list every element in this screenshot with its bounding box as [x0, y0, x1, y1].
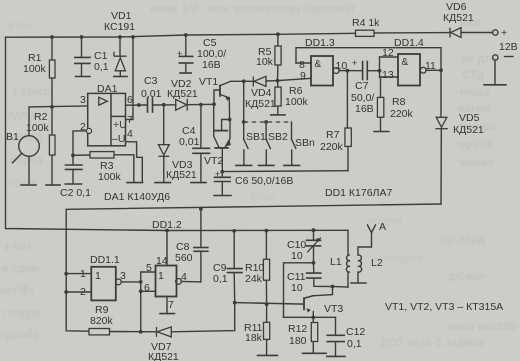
- svg-text:18k: 18k: [245, 332, 263, 344]
- svg-text:100k: 100k: [23, 63, 47, 75]
- svg-text:0,01: 0,01: [141, 88, 162, 100]
- svg-text:10: 10: [291, 250, 303, 262]
- svg-text:10k: 10k: [256, 56, 274, 68]
- svg-text:КД521: КД521: [245, 98, 276, 110]
- svg-text:C6 50,0/16В: C6 50,0/16В: [235, 175, 293, 187]
- svg-text:R12: R12: [288, 323, 307, 335]
- svg-text:100k: 100k: [26, 122, 50, 134]
- svg-text:12: 12: [382, 47, 394, 59]
- svg-text:16В: 16В: [202, 59, 221, 71]
- svg-text:DD1.4: DD1.4: [394, 37, 424, 49]
- svg-text:6: 6: [144, 282, 150, 294]
- svg-text:220k: 220k: [390, 108, 414, 120]
- svg-text:SBn: SBn: [295, 137, 315, 149]
- svg-text:&: &: [402, 57, 409, 68]
- svg-text:–U: –U: [112, 133, 125, 145]
- svg-text:C3: C3: [144, 75, 158, 87]
- svg-text:DD1.2: DD1.2: [152, 219, 182, 231]
- svg-text:5: 5: [146, 262, 152, 274]
- svg-text:7: 7: [127, 114, 133, 126]
- svg-text:C2 0,1: C2 0,1: [60, 187, 91, 199]
- svg-text:7: 7: [168, 299, 174, 311]
- svg-text:11: 11: [425, 60, 436, 72]
- svg-text:VT2: VT2: [204, 155, 223, 167]
- svg-text:VT3: VT3: [324, 303, 343, 315]
- svg-text:+: +: [177, 49, 182, 59]
- svg-text:DA1: DA1: [97, 83, 118, 95]
- svg-text:1: 1: [95, 270, 101, 282]
- svg-text:4: 4: [181, 271, 187, 283]
- svg-text:560: 560: [175, 252, 193, 264]
- svg-text:1: 1: [80, 268, 86, 280]
- svg-text:DD1.1: DD1.1: [90, 254, 120, 266]
- svg-text:820k: 820k: [90, 315, 114, 327]
- svg-text:КД521: КД521: [148, 351, 179, 361]
- svg-text:+: +: [215, 169, 220, 179]
- svg-text:DD1.3: DD1.3: [305, 37, 335, 49]
- svg-text:3: 3: [120, 270, 126, 282]
- svg-text:SB2: SB2: [268, 131, 288, 143]
- svg-text:B1: B1: [6, 131, 19, 143]
- svg-text:DD1 К176ЛА7: DD1 К176ЛА7: [325, 187, 392, 199]
- svg-text:0,1: 0,1: [94, 61, 109, 73]
- svg-text:24k: 24k: [245, 273, 263, 285]
- svg-text:100k: 100k: [285, 96, 309, 108]
- svg-text:16В: 16В: [355, 103, 374, 115]
- svg-text:КД521: КД521: [166, 169, 197, 181]
- svg-text:A: A: [379, 221, 386, 233]
- svg-text:2: 2: [80, 121, 86, 133]
- svg-text:100k: 100k: [98, 171, 122, 183]
- svg-text:2: 2: [80, 286, 86, 298]
- svg-text:10: 10: [336, 60, 348, 72]
- svg-text:3: 3: [80, 94, 86, 106]
- svg-text:4: 4: [127, 128, 133, 140]
- svg-text:R4 1k: R4 1k: [352, 17, 380, 29]
- svg-text:VT1: VT1: [199, 76, 218, 88]
- svg-text:C7: C7: [355, 80, 369, 92]
- svg-text:13: 13: [382, 69, 394, 81]
- svg-text:R8: R8: [392, 96, 406, 108]
- svg-text:КД521: КД521: [167, 88, 198, 100]
- svg-text:220k: 220k: [320, 141, 344, 153]
- svg-text:КД521: КД521: [443, 12, 474, 24]
- svg-text:L1: L1: [330, 256, 342, 268]
- svg-text:&: &: [315, 59, 322, 70]
- svg-text:SB1: SB1: [246, 131, 266, 143]
- svg-text:180: 180: [289, 335, 307, 347]
- svg-text:+: +: [501, 27, 507, 39]
- svg-text:C12: C12: [346, 326, 365, 338]
- svg-text:КС191: КС191: [104, 21, 135, 33]
- svg-text:+U: +U: [113, 119, 127, 131]
- svg-text:R7: R7: [326, 129, 340, 141]
- svg-text:6: 6: [127, 94, 133, 106]
- svg-text:14: 14: [156, 255, 168, 267]
- svg-text:9: 9: [300, 70, 306, 82]
- svg-text:+: +: [352, 58, 357, 68]
- svg-text:VT1, VT2, VT3 – КТ315А: VT1, VT2, VT3 – КТ315А: [385, 301, 503, 313]
- svg-text:10: 10: [291, 282, 303, 294]
- svg-text:0,1: 0,1: [347, 338, 362, 350]
- svg-text:0,01: 0,01: [179, 136, 200, 148]
- svg-text:L2: L2: [371, 257, 383, 269]
- svg-text:VD5: VD5: [459, 112, 480, 124]
- svg-text:КД521: КД521: [453, 124, 484, 136]
- svg-text:0,1: 0,1: [213, 273, 228, 285]
- svg-text:1: 1: [158, 270, 164, 282]
- svg-text:12В: 12В: [499, 41, 518, 53]
- svg-text:DA1 К140УД6: DA1 К140УД6: [104, 191, 170, 203]
